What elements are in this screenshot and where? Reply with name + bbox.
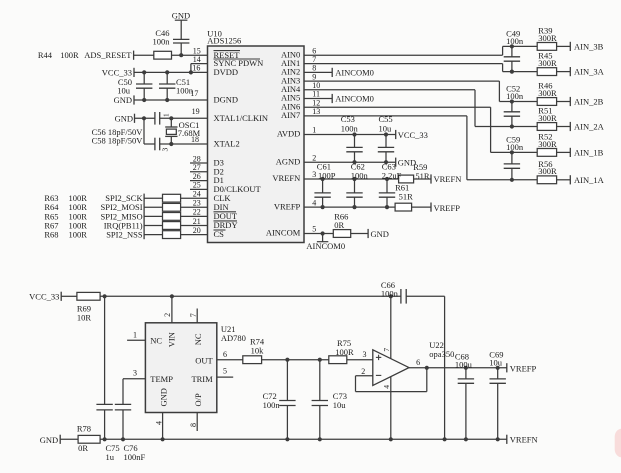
svg-text:VCC_33: VCC_33 [29,291,59,301]
svg-text:22: 22 [193,208,201,217]
wire GND to C56 [135,117,155,119]
svg-text:AIN_3A: AIN_3A [574,67,605,77]
svg-text:GND: GND [40,435,58,445]
svg-text:XTAL2: XTAL2 [214,139,240,149]
svg-text:8: 8 [189,423,198,427]
svg-text:VREFP: VREFP [510,363,537,373]
svg-text:20: 20 [193,226,201,235]
wire C46 to RESET net [180,43,182,55]
svg-text:11: 11 [312,90,320,99]
wire SPI2_MOSI to R64 [144,206,162,208]
svg-text:100n: 100n [506,36,524,46]
pin label CLK [214,193,232,203]
capacitor C61 100P [314,162,335,207]
svg-text:NC: NC [193,333,203,345]
svg-text:R68: R68 [44,230,58,240]
resistor R39 300R [537,25,557,50]
wire R52 to AIN_1B [557,151,571,153]
wire op-amp feedback (pin 2) [356,367,427,392]
wire VREFN row (pin 3) [304,178,399,180]
net flag AIN_2B [570,97,603,107]
net flag ADS_RESET [84,50,133,60]
svg-text:7.68M: 7.68M [178,128,201,138]
node C59 top junction [510,150,514,154]
svg-text:VREFN: VREFN [510,434,538,444]
wire R65 to pin 22 [181,215,208,217]
svg-text:100n: 100n [153,36,171,46]
svg-text:10k: 10k [251,346,265,356]
wire AGND row (pin 2) [304,161,396,163]
net flag AIN_3B [570,41,603,51]
svg-text:19: 19 [192,107,200,116]
pin label DIN [214,202,229,212]
svg-text:17: 17 [190,89,198,98]
pin label CS [214,229,226,239]
wire R68 to pin 20 [181,234,208,236]
svg-text:300R: 300R [538,166,557,176]
net flag AIN_2A [570,122,604,132]
wire stub pin 28 [190,162,208,164]
wire pin 6 to AIN_3B row [304,46,537,55]
svg-text:AIN_1B: AIN_1B [574,147,604,157]
svg-text:100u: 100u [455,359,473,369]
wire R75 to op-amp +input [347,350,373,360]
pin 3 wire (TEMP) [123,369,145,379]
node VCC rail junctions [142,70,146,74]
wire VCC rail to C66 [100,295,401,297]
wire R46 to AIN_2B [557,101,571,103]
pin label D1 [214,175,224,185]
op-amp / IC U10 ADS1256 body [207,28,304,242]
svg-text:16: 16 [192,63,200,72]
svg-text:3: 3 [133,369,137,378]
capacitor C53 100n [341,114,363,162]
capacitor C72 100n [263,360,296,440]
wire R44 to pin 15 [172,54,208,56]
wire stub pin 25 [190,188,208,190]
power flag VCC_33 (reference supply) [29,291,61,301]
svg-text:6: 6 [223,350,227,359]
resistor R69 10R [77,292,100,322]
node AINCOM junction [321,231,325,235]
wire pin 14 to DVDD rail [191,63,208,65]
wire stub pin 27 [190,171,208,173]
wire R66 to GND flag [351,233,368,235]
wire R63 to pin 24 [181,197,208,199]
svg-text:GND: GND [158,388,168,406]
wire R61 to VREFP flag [412,206,431,208]
svg-text:300R: 300R [538,139,557,149]
svg-text:AIN7: AIN7 [281,110,300,120]
pin label XTAL1/CLKIN [214,113,269,123]
net flag AIN_1A [570,175,604,185]
wire VCC_33 rail to pin 16 [134,71,208,73]
node C52 top junction [510,99,514,103]
net flag VREFP [431,203,460,213]
pin label D3 [214,158,224,168]
capacitor C66 100n [381,280,406,304]
svg-text:GND: GND [172,11,190,21]
wire C56 to pin 19 [160,117,208,119]
node output junctions [425,366,429,370]
svg-text:AINCOM: AINCOM [266,228,301,238]
svg-text:100n: 100n [341,124,359,134]
svg-text:VIN: VIN [167,332,177,347]
wire AINCOM row (pin 5) [304,233,333,235]
wire R59 to VREFN flag [414,178,431,180]
svg-text:4: 4 [312,198,316,207]
wire pin 7 to AIN_3A row [304,64,537,72]
svg-text:10R: 10R [77,312,92,322]
resistor R59 51R [399,162,430,183]
capacitor C69 10u [489,350,506,440]
wire op-amp V+ (pin 7) to VCC rail [382,296,391,358]
svg-text:VREFN: VREFN [434,174,462,184]
node VREFN junctions [321,177,325,181]
svg-text:AIN_2B: AIN_2B [574,97,604,107]
svg-text:10u: 10u [489,358,503,368]
svg-text:100n: 100n [351,171,369,181]
pin 8 stub (O/P) [189,413,198,432]
node bottom rail junctions [103,437,107,441]
svg-text:AINCOM0: AINCOM0 [335,94,374,104]
svg-text:ADS1256: ADS1256 [207,36,241,46]
wire R67 to pin 21 [181,225,208,227]
svg-text:TEMP: TEMP [150,374,173,384]
net flag AIN_1B [570,147,603,157]
pin label D0/CLKOUT [214,184,262,194]
resistor R67 100R [44,220,180,230]
capacitor C46 100n [153,28,190,46]
pin 2 wire (VIN) [163,296,172,323]
net flag VREFN [431,174,461,184]
pin 1 stub (NC) [127,331,145,341]
svg-text:C58 18pF/50V: C58 18pF/50V [92,135,144,145]
resistor R74 10k [243,336,265,363]
resistor R63 100R [44,193,180,203]
svg-text:GND: GND [115,113,133,123]
svg-text:300R: 300R [538,113,557,123]
svg-text:28: 28 [193,154,201,163]
svg-text:3: 3 [363,350,367,359]
svg-text:7: 7 [312,55,316,64]
svg-text:10u: 10u [333,400,347,410]
resistor R65 100R [44,211,180,221]
net flag AINCOM0 (below pin 5) [306,234,345,252]
capacitor C49 100n [504,28,524,71]
capacitor C59 100n [504,134,524,179]
svg-text:AIN_3B: AIN_3B [574,41,604,51]
net flag SPI2_MISO [101,211,145,221]
svg-text:27: 27 [193,163,201,172]
wire C66 to VREFN drop [406,296,444,439]
svg-text:OUT: OUT [195,355,213,365]
wire R51 to AIN_2A [557,126,571,128]
svg-text:2: 2 [163,313,172,317]
svg-text:51R: 51R [399,192,414,202]
svg-text:AINCOM0: AINCOM0 [335,68,374,78]
svg-text:10u: 10u [379,124,393,134]
svg-text:9: 9 [312,72,316,81]
wire R39 to AIN_3B [557,45,571,47]
capacitor C76 100nF [115,379,146,462]
pin label DVDD [214,67,239,77]
resistor R56 300R [537,159,557,184]
svg-text:4: 4 [382,385,391,389]
svg-text:2: 2 [361,367,365,376]
net flag AINCOM0 (pin 11) [304,94,374,104]
ground flag GND (U10 DGND) [114,95,134,105]
svg-text:26: 26 [193,172,201,181]
wire IRQ(PB11) to R67 [144,225,162,227]
pin label DRDY [214,220,238,230]
svg-text:3: 3 [161,148,170,152]
svg-text:0R: 0R [334,220,344,230]
svg-text:100P: 100P [318,171,336,181]
svg-text:XTAL1/CLKIN: XTAL1/CLKIN [214,113,269,123]
net flag SPI2_SCK [105,193,144,203]
svg-text:100n: 100n [381,289,399,299]
pin label RESET [214,50,241,60]
svg-text:GND: GND [371,229,389,239]
capacitor C73 10u [312,360,347,440]
svg-text:25: 25 [193,181,201,190]
wire stub pin 26 [190,180,208,182]
svg-text:VCC_33: VCC_33 [398,130,428,140]
svg-text:7: 7 [189,313,198,317]
svg-text:5: 5 [223,367,227,376]
node C59 bottom junction [510,178,514,182]
resistor R51 300R [537,106,557,131]
wire pin 12 to AIN_1B row [304,107,537,152]
resistor R44 100R [38,50,172,60]
svg-text:100nF: 100nF [124,452,146,462]
IC U21 AD780 body [145,323,246,413]
wire crystal left leg [143,118,145,144]
node C52 bottom junction [510,124,514,128]
svg-text:ADS_RESET: ADS_RESET [84,50,132,60]
wire GND rail to pin 17 [134,99,208,101]
svg-text:CS: CS [214,229,225,239]
svg-text:C53: C53 [341,114,355,124]
node GND rail junctions [142,98,146,102]
capacitor C58 18pF/50V [92,135,160,150]
svg-text:VREFN: VREFN [272,173,300,183]
svg-text:300R: 300R [538,58,557,68]
capacitor C52 100n [504,84,524,127]
ground flag GND (bottom rail) [40,435,60,445]
node XTAL2 junction [169,142,173,146]
capacitor C75 1u [96,296,119,462]
resistor R78 0R [77,424,100,454]
node C49 top junction [510,44,514,48]
wire op-amp V- (pin 4) to GND rail [382,377,391,440]
svg-text:3: 3 [312,170,316,179]
svg-text:21: 21 [193,217,201,226]
svg-text:opa350: opa350 [429,349,454,359]
wire R74 to R75 [262,359,329,361]
pin label DGND [214,95,239,105]
svg-text:300R: 300R [538,88,557,98]
pin 4 wire (GND) [154,413,163,440]
ground flag GND (R66) [368,229,389,239]
net flag SPI2_MOSI [101,202,145,212]
svg-text:4: 4 [154,421,163,425]
resistor R64 100R [44,202,180,212]
resistor R68 100R [44,230,180,240]
wire SPI2_NSS to R68 [144,234,162,236]
net flag VREFN (bottom) [507,434,538,444]
pin label D2 [214,166,224,176]
svg-text:100n: 100n [506,91,524,101]
wire pin 9 to AIN_2B row [304,81,537,101]
power flag VCC_33 (AVDD) [396,130,428,140]
svg-text:SPI2_NSS: SPI2_NSS [106,230,143,240]
power flag VCC_33 (U10 DVDD) [102,68,134,78]
pin label XTAL2 [214,139,240,149]
node VCC rail junctions [103,294,107,298]
svg-text:7: 7 [382,348,391,352]
capacitor C56 18pF/50V [92,112,160,137]
svg-text:100R: 100R [69,230,88,240]
wire R45 to AIN_3A [557,71,571,73]
svg-text:VREFP: VREFP [434,203,461,213]
svg-text:AIN_2A: AIN_2A [574,122,605,132]
decorative pink highlight [615,429,621,458]
svg-text:6: 6 [416,358,420,367]
net flag SPI2_NSS [106,230,144,240]
node crystal gnd junction [142,116,146,120]
resistor R66 0R [333,211,350,237]
resistor R75 100R [329,338,354,364]
svg-text:R44: R44 [38,50,53,60]
svg-text:1: 1 [312,126,316,135]
capacitor C62 100n [346,162,368,207]
resistor R45 300R [537,51,557,76]
svg-text:0R: 0R [78,443,88,453]
wire R56 to AIN_1A [557,179,571,181]
wire VREFP row (pin 4) [304,206,395,208]
svg-text:12: 12 [312,98,320,107]
net flag AIN_3A [570,67,604,77]
svg-text:23: 23 [193,199,201,208]
wire SPI2_MISO to R65 [144,215,162,217]
svg-text:100n: 100n [506,142,524,152]
node AVDD junctions [352,132,356,136]
op-amp U22 opa350 [373,340,455,385]
svg-text:VREFP: VREFP [274,201,301,211]
node ADS_RESET / RESET junction [179,53,183,57]
capacitor C50 10u [117,72,152,100]
svg-text:1: 1 [133,331,137,340]
pin label DOUT [214,211,238,221]
node C72 junction [285,358,289,362]
wire GND flag to C46 [180,20,182,39]
svg-text:300R: 300R [538,33,557,43]
net flag AINCOM0 (pin 8) [304,68,374,78]
svg-text:GND: GND [114,95,132,105]
svg-text:DVDD: DVDD [214,67,239,77]
capacitor C55 10u [378,114,394,162]
wire pin 13 to AIN_1A row [304,116,537,180]
ground GND (top, above C46) [172,11,190,21]
pin 7 stub (NC top) [189,309,198,323]
pin label SYNC PDWN [214,58,264,68]
wire GND to R78 [60,438,78,440]
svg-text:AIN_1A: AIN_1A [574,175,605,185]
svg-text:R78: R78 [77,424,91,434]
svg-text:8: 8 [312,64,316,73]
svg-text:AINCOM0: AINCOM0 [306,241,345,251]
node XTAL1 junction [169,116,173,120]
svg-text:100n: 100n [263,400,281,410]
capacitor C63 2.2uF [379,162,402,207]
wire AVDD row (pin 1) [304,134,396,136]
wire bottom GND/VREFN rail [100,438,507,440]
pin 5 stub (TRIM) [217,367,233,378]
capacitor C68 100u [455,351,474,439]
wire op-amp output to VREFP [409,358,507,368]
svg-text:2: 2 [312,153,316,162]
capacitor C51 100n [159,72,194,100]
svg-text:1u: 1u [106,452,115,462]
svg-text:100R: 100R [60,50,79,60]
svg-text:NC: NC [150,336,162,346]
net flag VREFP (output) [507,363,537,373]
pin 6 wire (OUT) [217,350,243,360]
svg-text:10: 10 [312,81,320,90]
resistor R61 51R [395,183,413,212]
wire SPI2_SCK to R63 [144,197,162,199]
svg-text:AVDD: AVDD [277,129,300,139]
resistor R52 300R [537,131,557,156]
net flag IRQ(PB11) [104,220,144,230]
wire ADS_RESET to R44 [134,54,154,56]
svg-text:24: 24 [193,190,201,199]
node C73 junction [318,358,322,362]
svg-text:5: 5 [312,225,316,234]
svg-text:AD780: AD780 [221,333,246,343]
svg-text:C55: C55 [379,114,393,124]
svg-text:13: 13 [312,107,320,116]
wire R64 to pin 23 [181,206,208,208]
wire VCC_33 to R69 [61,295,77,297]
svg-text:DGND: DGND [214,95,239,105]
svg-text:AGND: AGND [276,156,301,166]
svg-text:2.2uF: 2.2uF [382,171,402,181]
svg-text:10u: 10u [117,85,131,95]
node C49 bottom junction [510,70,514,74]
ground flag GND (crystal) [115,113,135,123]
resistor R46 300R [537,81,557,106]
ground flag GND (AGND) [396,158,416,168]
wire pin 10 to AIN_2A row [304,90,537,127]
node VREFP junctions [321,205,325,209]
svg-text:O/P: O/P [193,393,203,407]
wire C58 to pin 18 [160,143,208,145]
crystal OSC1 7.68M [165,118,200,144]
svg-text:TRIM: TRIM [191,374,213,384]
node AGND junctions [352,160,356,164]
svg-text:1: 1 [161,113,170,117]
